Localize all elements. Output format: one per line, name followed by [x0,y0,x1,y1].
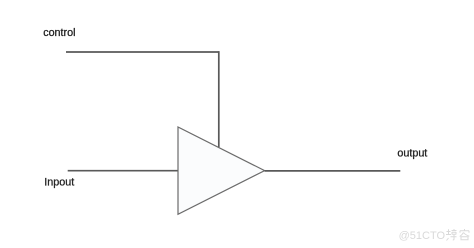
buffer U1 (tri-state buffer triangle) [178,127,265,214]
svg-text:output: output [397,148,427,160]
control wire horizontal segment [66,51,219,53]
input wire [68,170,178,172]
svg-text:control: control [43,27,75,39]
svg-text:@51CTO: @51CTO [399,230,446,242]
output wire [265,170,401,172]
svg-text:Inpout: Inpout [44,177,74,189]
博 [446,229,457,241]
watermark [399,229,470,242]
control wire vertical segment [218,51,220,147]
客 [460,229,470,240]
